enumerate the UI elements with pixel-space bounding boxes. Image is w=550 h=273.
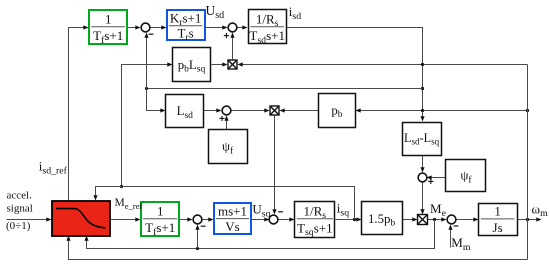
wire M_e feedback down left and up into limiter bottom: [84, 220, 434, 249]
wire S6 output to controller U5: [203, 217, 214, 221]
wire omega_m output: [518, 217, 542, 221]
wire M_e_ref: limiter output to filter F2: [110, 217, 141, 221]
label accel. signal (0÷1): [6, 189, 33, 232]
d-axis plant G3 (1/Rs)/(Tsd s+1): [249, 10, 287, 46]
wire S5 output into 1/Js block: [457, 217, 479, 221]
wire i_sq: plant output to 1.5pb block: [336, 217, 362, 221]
svg-text:Mm: Mm: [451, 235, 471, 253]
summer S5: [447, 215, 456, 224]
svg-text:isd: isd: [289, 4, 301, 22]
label i_sd_ref: [39, 159, 68, 177]
wire U_sq: controller output to summer S7: [252, 217, 270, 221]
node omega rail junction y110.6: [526, 109, 529, 112]
svg-text:isd_ref: isd_ref: [39, 159, 68, 177]
label U_sq: [252, 202, 270, 220]
wire S1 output to PI controller U2: [151, 25, 167, 29]
wire M1 output up into S2 plus input: [230, 33, 234, 61]
gain block pb*Lsq: [173, 48, 211, 82]
wire M_e feedback up into S6 minus input: [195, 225, 199, 249]
wire M_e: M3 output to summer S5: [427, 217, 447, 221]
multiplier M1: [228, 60, 237, 69]
label M_e: [430, 201, 447, 219]
summer S2: [228, 23, 237, 32]
wire i_sd: plant output right then down into Lsd-Lsq block: [287, 28, 425, 122]
node crossing dot omega/i_sd at y110.6: [421, 109, 424, 112]
wire S4 output down into M3 top: [420, 182, 424, 215]
summer S3: [222, 106, 231, 115]
limiter block (red, accel curve): [52, 201, 110, 236]
svg-text:ms+1: ms+1: [218, 204, 247, 219]
sign minus at S6: [201, 225, 206, 227]
wire Lsd output to summer S3: [204, 108, 222, 112]
wire psi_f2 output left into S4 plus input: [427, 175, 446, 179]
wire F2 output to summer S6: [180, 217, 193, 221]
summer S4: [418, 173, 427, 182]
node i_sq bus junction x121.6: [120, 185, 123, 188]
flux block psi_f right: [446, 160, 486, 192]
filter block F2 1/(Tf s+1) green: [141, 202, 179, 238]
summer S7: [269, 215, 278, 224]
svg-text:accel.: accel.: [7, 189, 33, 201]
svg-text:(0÷1): (0÷1): [6, 220, 31, 232]
label i_sq: [337, 201, 349, 219]
summer S6: [193, 215, 202, 224]
svg-text:Vs: Vs: [225, 219, 239, 234]
svg-text:Me: Me: [430, 201, 447, 219]
node M_e feedback to S6 junction: [196, 247, 199, 250]
svg-text:1: 1: [157, 203, 164, 218]
wire i_sq tap up and left along y=186.6 then down into limiter top: [93, 187, 354, 220]
wire i_sd feedback up into S1 minus input: [144, 33, 148, 89]
node M_e feedback junction: [433, 218, 436, 221]
wire 1.5pb output into M3 left: [403, 217, 418, 221]
gain block Lsd: [166, 95, 204, 128]
wire omega feedback bottom left and up into limiter bottom: [66, 236, 527, 260]
wire i_sd_ref: limiter top up and right into filter F1: [69, 25, 89, 200]
gain block Lsd-Lsq: [403, 123, 442, 156]
wire pb output left into M2 right input: [280, 108, 319, 112]
label i_sd: [289, 4, 301, 22]
gain block 1.5pb: [362, 202, 403, 235]
svg-text:isq: isq: [337, 201, 349, 219]
node crossing dot omega/i_sd at y64.8: [421, 63, 424, 66]
wire S2 output to d-axis plant G3: [238, 25, 248, 29]
multiplier M2: [270, 106, 279, 115]
wire i_sq branch: from y=186.6 bus up x=121.6 then right into pbLsq block: [122, 62, 173, 186]
label M_m: [451, 235, 471, 253]
wire F1 output to summer S1: [128, 25, 141, 29]
wire omega rail into pb right input: [356, 108, 528, 112]
wire U_sd: PI output to summer S2: [205, 25, 228, 29]
mechanical block 1/Js: [479, 204, 518, 236]
wire omega rail vertical x=527.7 from y64.8 down to y259.6: [527, 65, 529, 260]
node i_sd feedback junction: [421, 87, 424, 90]
label omega_m: [532, 201, 549, 219]
wire psi_f1 up into S3 plus input: [224, 116, 228, 130]
svg-text:Me_ref: Me_ref: [115, 197, 143, 211]
wire accel input to limiter: [7, 217, 52, 221]
svg-text:Usq: Usq: [252, 202, 270, 220]
multiplier M3: [418, 215, 428, 225]
sign minus at S1: [149, 33, 154, 35]
wire S3 output to multiplier M2: [232, 108, 270, 112]
svg-text:Js: Js: [493, 220, 503, 235]
svg-text:signal: signal: [7, 203, 33, 215]
node i_sq tap junction: [353, 218, 356, 221]
label U_sd: [206, 3, 225, 21]
PI controller U2 (Kr s+1)/(Tr s) blue: [167, 10, 205, 43]
wire i_sd down then right into Lsd block: [147, 89, 166, 113]
node junction at x146 y88: [145, 87, 148, 90]
speed controller U5 (ms+1)/Vs blue: [214, 203, 251, 234]
wire omega from right rail into M1 right input: [238, 62, 528, 66]
label M_e_ref: [115, 197, 143, 211]
sign minus at S7: [278, 211, 283, 213]
wire M2 output down into S7 minus input: [272, 116, 276, 215]
svg-text:1: 1: [105, 11, 112, 26]
sign minus at S5: [454, 225, 459, 227]
sign plus at S3: [219, 116, 224, 121]
sign plus at S2: [224, 33, 229, 38]
svg-text:Usd: Usd: [206, 3, 225, 21]
wire i_sd feedback left along y=88 to vertical x=146: [147, 88, 423, 90]
gain block pb: [319, 94, 356, 128]
sign plus at S4: [428, 179, 433, 184]
svg-text:1: 1: [494, 204, 501, 219]
summer S1: [141, 23, 150, 32]
q-axis plant G6 (1/Rs)/(Tsq s+1): [295, 202, 335, 239]
flux block psi_f left: [209, 130, 248, 164]
filter block F1 1/(Tf s+1) green: [89, 10, 127, 46]
wire pbLsq output into multiplier M1: [212, 62, 228, 66]
wire Lsd-Lsq output down into S4: [420, 156, 424, 173]
node omega feedback junction: [526, 218, 529, 221]
svg-text:ωm: ωm: [532, 201, 549, 219]
wire M_m input up into S5 minus input: [448, 225, 452, 248]
wire S7 output to q-axis plant G6: [279, 217, 295, 221]
